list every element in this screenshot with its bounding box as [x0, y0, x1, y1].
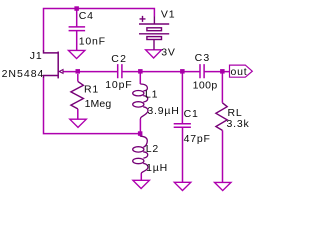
svg-text:R1: R1: [84, 83, 99, 95]
svg-text:C3: C3: [195, 52, 211, 64]
svg-text:2N5484: 2N5484: [2, 68, 45, 80]
svg-text:10pF: 10pF: [105, 79, 132, 91]
svg-text:3.3k: 3.3k: [227, 118, 250, 130]
svg-text:RL: RL: [228, 107, 243, 119]
svg-text:3.9µH: 3.9µH: [147, 105, 179, 117]
svg-text:47pF: 47pF: [184, 133, 211, 145]
svg-text:3V: 3V: [161, 47, 175, 59]
svg-text:C2: C2: [111, 53, 127, 65]
svg-text:out: out: [231, 66, 248, 78]
svg-text:1µH: 1µH: [146, 162, 168, 174]
svg-text:C4: C4: [79, 10, 94, 22]
svg-text:V1: V1: [161, 9, 175, 21]
svg-text:1Meg: 1Meg: [85, 98, 112, 110]
svg-text:100p: 100p: [193, 79, 218, 91]
svg-text:C1: C1: [184, 108, 199, 120]
svg-text:L1: L1: [145, 89, 158, 101]
svg-text:J1: J1: [30, 50, 43, 62]
svg-text:L2: L2: [146, 143, 159, 155]
svg-text:10nF: 10nF: [79, 35, 106, 47]
